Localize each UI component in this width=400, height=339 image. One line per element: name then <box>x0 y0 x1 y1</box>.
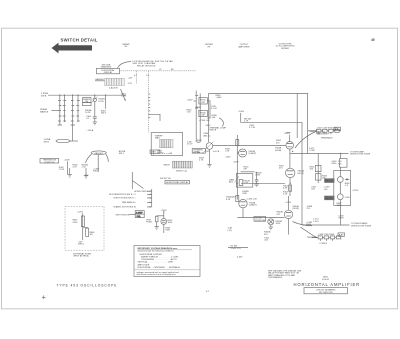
wire sw vertical x98 <box>97 155 99 172</box>
ganged curve left <box>86 154 92 163</box>
junction testpoint <box>163 211 164 212</box>
wire rail x297 <box>296 93 298 138</box>
svg-text:SW 347 1A: SW 347 1A <box>160 177 171 180</box>
wire dashed mag to right <box>162 152 172 154</box>
dashed rail ticks <box>148 94 150 118</box>
wire interstage y183 <box>241 182 285 184</box>
boxed label horiz position <box>254 216 266 221</box>
list row interrupted <box>109 194 152 197</box>
svg-text:+225V: +225V <box>233 161 240 163</box>
wire rail x208 <box>208 93 210 142</box>
registration cross <box>42 295 46 299</box>
tube V364C <box>284 210 292 218</box>
svg-text:+12V: +12V <box>128 78 134 80</box>
svg-text:24K: 24K <box>201 115 205 117</box>
svg-text:V364B(6DJ8): V364B(6DJ8) <box>293 206 300 210</box>
svg-text:1-4721-455: 1-4721-455 <box>313 219 319 223</box>
wire rail x302 <box>301 135 303 225</box>
tube V364B <box>286 142 294 150</box>
svg-text:+225V: +225V <box>193 152 200 154</box>
wire pot top line <box>241 171 255 173</box>
thermal curve <box>219 118 223 127</box>
wire dashed from display box <box>120 70 197 72</box>
box A-B9 lower <box>338 233 345 237</box>
wire plate v364b <box>289 135 291 142</box>
svg-text:VERTICAL . . . . . . . . . .: VERTICAL . . . . . . . . . . . . . . . .… <box>138 261 175 264</box>
box sweep cal <box>83 98 92 104</box>
neon B369 upper <box>337 177 343 183</box>
header driver EF <box>205 44 213 48</box>
notes separator <box>134 269 200 271</box>
svg-text:AMPLITUDE: AMPLITUDE <box>138 263 151 266</box>
svg-text:+225V: +225V <box>285 202 292 204</box>
rail second <box>199 93 201 142</box>
svg-text:-150V: -150V <box>225 157 231 159</box>
svg-text:TYPE 453 OSCILLOSCOPE: TYPE 453 OSCILLOSCOPE <box>57 283 118 287</box>
wire list rail <box>151 189 153 207</box>
bus junction dots <box>59 95 106 96</box>
header output EF and LF driver <box>276 43 295 50</box>
svg-text:AGB: AGB <box>323 275 328 278</box>
wire sw position arrow <box>130 214 136 216</box>
tube V343B <box>239 199 247 207</box>
wire left rail tubes <box>236 135 238 200</box>
svg-text:+225V: +225V <box>352 190 359 192</box>
wire grid V343A <box>237 152 238 154</box>
svg-text:+ 100 A: + 100 A <box>86 129 94 132</box>
wire lamp box drop <box>340 205 342 225</box>
resistor R366 box <box>315 174 321 180</box>
label MAG box left <box>150 150 160 154</box>
wire R846 tap <box>83 226 88 229</box>
curve to lower chain <box>293 222 313 226</box>
svg-text:HORIZONTAL . . CENTERED . . .: HORIZONTAL . . CENTERED . . . NORMAL A <box>138 266 181 269</box>
list row time base <box>122 201 152 204</box>
curve to delay line <box>295 132 316 149</box>
wire +100V stub <box>240 113 242 122</box>
wire dashed drop mid <box>147 71 149 133</box>
ground sw area <box>68 175 72 178</box>
right rail resistors <box>317 154 319 184</box>
svg-text:-12V: -12V <box>84 175 89 177</box>
wire grid feed Q343 to V364B <box>213 145 286 147</box>
ground below C304 <box>93 122 97 125</box>
boxed label horizontal display bottom <box>165 180 190 184</box>
switch contact dots <box>58 100 80 122</box>
resistor R345 box <box>199 98 207 104</box>
connector hatched block <box>172 161 192 168</box>
box mag register <box>151 133 183 156</box>
svg-text:+225V: +225V <box>187 100 194 102</box>
resistor R347c <box>155 216 158 227</box>
dashed box external horiz <box>65 206 104 250</box>
svg-text:W INTERRUPTED SW B + C: W INTERRUPTED SW B + C <box>109 194 137 196</box>
wire sw vertical x67 <box>67 161 69 174</box>
svg-text:345 THRU 399: 345 THRU 399 <box>319 292 334 294</box>
svg-text:V364A(6DJ8): V364A(6DJ8) <box>298 170 305 175</box>
svg-text:SWITCH DETAIL: SWITCH DETAIL <box>61 38 98 43</box>
svg-text:-12V: -12V <box>128 83 133 85</box>
header output amplifier <box>239 44 250 48</box>
svg-text:+100V: +100V <box>64 159 71 161</box>
svg-text:1-455: 1-455 <box>345 197 351 199</box>
box C360 R360 <box>340 159 348 168</box>
svg-text:AMPLIFIER: AMPLIFIER <box>239 45 250 48</box>
svg-text:4-390: 4-390 <box>237 256 243 258</box>
svg-text:TIME BASE B +: TIME BASE B + <box>122 201 138 204</box>
wire dashed drop left <box>135 71 137 84</box>
rail R345 chain <box>195 91 197 143</box>
tube V364A <box>286 168 295 177</box>
wire ext box rail <box>82 213 84 240</box>
junction dot output upper left <box>292 151 293 152</box>
chain ground ticks upper <box>319 132 331 134</box>
svg-text:MAG: MAG <box>151 151 156 154</box>
wire drop to C360 box <box>340 154 342 159</box>
svg-text:C368R368: C368R368 <box>339 216 345 220</box>
svg-text:DISPLAY: DISPLAY <box>104 71 113 74</box>
note arrow <box>118 62 132 68</box>
wire wafer lead left <box>95 80 105 82</box>
svg-text:A SWP: A SWP <box>136 211 143 214</box>
resistor tick left rail lower <box>236 196 239 202</box>
wire v364c cathode down <box>288 219 290 235</box>
rail ticks R345 <box>195 96 198 109</box>
wire lamp ground drop <box>270 225 272 227</box>
svg-text:TERMINAL: TERMINAL <box>307 236 318 239</box>
wire output line lower <box>302 224 350 226</box>
neon arrow upper <box>345 178 350 180</box>
list row ext horiz <box>114 197 152 200</box>
ground lamp B367 <box>269 227 273 230</box>
svg-text:THIS MARKED: THIS MARKED <box>268 276 283 279</box>
note see mechanical switch detail <box>133 60 175 68</box>
ganged oval <box>91 151 106 155</box>
svg-text:WBOX: WBOX <box>164 165 171 167</box>
resistor R846 <box>86 228 89 236</box>
svg-text:+225V: +225V <box>284 133 291 135</box>
box sweep cal lower cell <box>83 103 92 106</box>
wire x210 drop <box>209 149 211 164</box>
svg-text:SW347 1-A: SW347 1-A <box>176 170 187 173</box>
wire C345 branch <box>207 101 210 118</box>
box horiz display lower <box>40 159 59 164</box>
svg-text:49: 49 <box>371 38 375 42</box>
diagonal to lower chain <box>301 227 318 238</box>
switch column 4 <box>77 95 79 122</box>
svg-text:C360R360: C360R360 <box>332 161 338 165</box>
junction dot v364a <box>290 183 291 184</box>
wire lamp drop <box>163 224 165 233</box>
wire emitter Q301 <box>94 95 96 98</box>
wire drop x105 <box>105 95 107 109</box>
wire sw col3 lower <box>69 168 71 175</box>
ground x210 <box>207 165 211 168</box>
junction dot interstage <box>237 183 238 184</box>
capacitor C304 <box>93 102 97 123</box>
svg-text:W AMPL EXT HORIZ IN: W AMPL EXT HORIZ IN <box>114 206 137 209</box>
label SW ganged <box>101 63 112 68</box>
output stage box <box>334 170 351 205</box>
switch box horizontal display <box>97 68 120 74</box>
list row A swp <box>135 190 152 193</box>
junction dot C347 <box>202 152 203 153</box>
notes box <box>134 246 200 277</box>
switch detail arrow <box>52 43 93 54</box>
neon B370 lower <box>337 194 343 200</box>
switch bus A <box>48 94 126 96</box>
resistor tick mid rail <box>289 185 292 191</box>
resistor R365 box <box>315 165 321 171</box>
delay line chain upper <box>308 129 341 132</box>
switch column 3 <box>71 95 75 141</box>
box A-B9 upper <box>334 127 341 131</box>
svg-text:DRIVER: DRIVER <box>281 48 289 50</box>
svg-text:A SWL SWP B: A SWL SWP B <box>135 190 149 193</box>
wafer switch rotor <box>105 78 125 85</box>
svg-text:C-368 B: C-368 B <box>319 243 327 245</box>
svg-text:HORIZONTAL DISPLAY: HORIZONTAL DISPLAY <box>166 181 189 184</box>
ground C356 <box>254 184 258 187</box>
mag wafer hatched <box>160 140 174 148</box>
svg-text:1-4-2 B: 1-4-2 B <box>213 151 220 153</box>
wire y218 left stub <box>237 217 284 219</box>
svg-text:W EXT HORIZ INPUT +: W EXT HORIZ INPUT + <box>114 198 137 200</box>
list row ampl ext <box>114 206 152 209</box>
switch column 2 <box>63 95 65 122</box>
pot box <box>236 174 253 188</box>
svg-text:2-AU/DIV: 2-AU/DIV <box>109 87 118 90</box>
wire rail junction tick <box>196 106 201 107</box>
resistor R845 <box>81 216 84 227</box>
resistor tick left rail upper <box>236 140 239 146</box>
svg-text:+C354 2.2K: +C354 2.2K <box>246 198 258 200</box>
svg-text:47K: 47K <box>201 102 205 104</box>
wire second feedback line <box>241 122 303 135</box>
svg-text:GANGED: GANGED <box>95 78 105 81</box>
label AGB <box>322 275 330 281</box>
resistor R346 box <box>199 110 207 116</box>
label B370 <box>324 196 334 200</box>
svg-text:with beam centered on the crt: with beam centered on the crt display ar… <box>137 273 177 276</box>
wire +225V arrow <box>194 100 197 102</box>
svg-text:obtained under the following c: obtained under the following conditions: <box>138 249 175 252</box>
delay pill symbol <box>56 139 78 142</box>
header sweep EF <box>122 44 130 48</box>
wire output line upper <box>290 153 349 155</box>
wire v364b cathode down <box>289 149 291 168</box>
wire C360 to lamp box <box>340 167 342 170</box>
svg-text:NE-2 B: NE-2 B <box>325 181 332 183</box>
wire V343B cathode <box>242 208 244 218</box>
svg-text:HORIZONTAL AMPLIFIER: HORIZONTAL AMPLIFIER <box>294 282 361 287</box>
svg-text:GANGED: GANGED <box>94 152 104 155</box>
chain ground ticks lower <box>320 239 332 241</box>
svg-text:SW POSITION: SW POSITION <box>116 214 130 216</box>
ganged curve right <box>106 154 109 162</box>
delay line chain lower <box>312 236 341 239</box>
dashed below mag <box>153 151 155 156</box>
tube V343A <box>239 149 247 157</box>
circuit numbers box <box>304 288 348 294</box>
wire V364C grid riser <box>288 196 290 210</box>
transistor Q343 <box>205 142 214 151</box>
wire bus B stub <box>52 110 59 112</box>
wire lamp chain inside <box>339 170 341 205</box>
transistor Q301 <box>92 97 98 103</box>
dashed step to mag <box>148 114 160 121</box>
svg-text:4-50-62: 4-50-62 <box>322 279 330 281</box>
svg-text:NE-2 B: NE-2 B <box>325 198 332 200</box>
ground R347c <box>155 227 159 230</box>
svg-text:RELAY WINDOW: RELAY WINDOW <box>137 64 155 67</box>
junction output upper <box>340 153 341 154</box>
wire sw col4 lower <box>85 168 87 176</box>
wire sw rail drop <box>131 172 133 189</box>
potentiometer R352 <box>235 176 243 185</box>
svg-text:TERMINALS: TERMINALS <box>321 137 334 140</box>
svg-text:+100V: +100V <box>238 111 245 113</box>
svg-text:L368 C369 R369: L368 C369 R369 <box>319 234 336 236</box>
svg-text:1-4B(-15): 1-4B(-15) <box>228 228 233 232</box>
lamp test point <box>161 219 167 225</box>
ground sw area right <box>84 176 88 179</box>
label vernier dc bal <box>192 149 205 154</box>
wire v364a cathode down <box>289 178 291 196</box>
wire elbow to R347 <box>157 215 164 217</box>
wire testpoint drop <box>163 212 165 219</box>
svg-text:POSITION: POSITION <box>44 162 54 164</box>
capacitor C356 <box>255 172 259 184</box>
wire wafer wiper diagonal <box>121 89 126 101</box>
svg-text:V364B(6DJ8): V364B(6DJ8) <box>275 148 282 152</box>
wire diagonal to list <box>132 181 143 189</box>
notes title underline <box>138 249 193 251</box>
label B369 <box>324 178 334 182</box>
svg-text:POSITION: POSITION <box>255 220 265 222</box>
wire top feedback line <box>209 93 308 153</box>
neon lamp B367 <box>268 219 274 225</box>
box A swp cal <box>135 211 144 218</box>
switch column 1 <box>58 95 62 125</box>
wire -150V stub <box>228 247 248 249</box>
